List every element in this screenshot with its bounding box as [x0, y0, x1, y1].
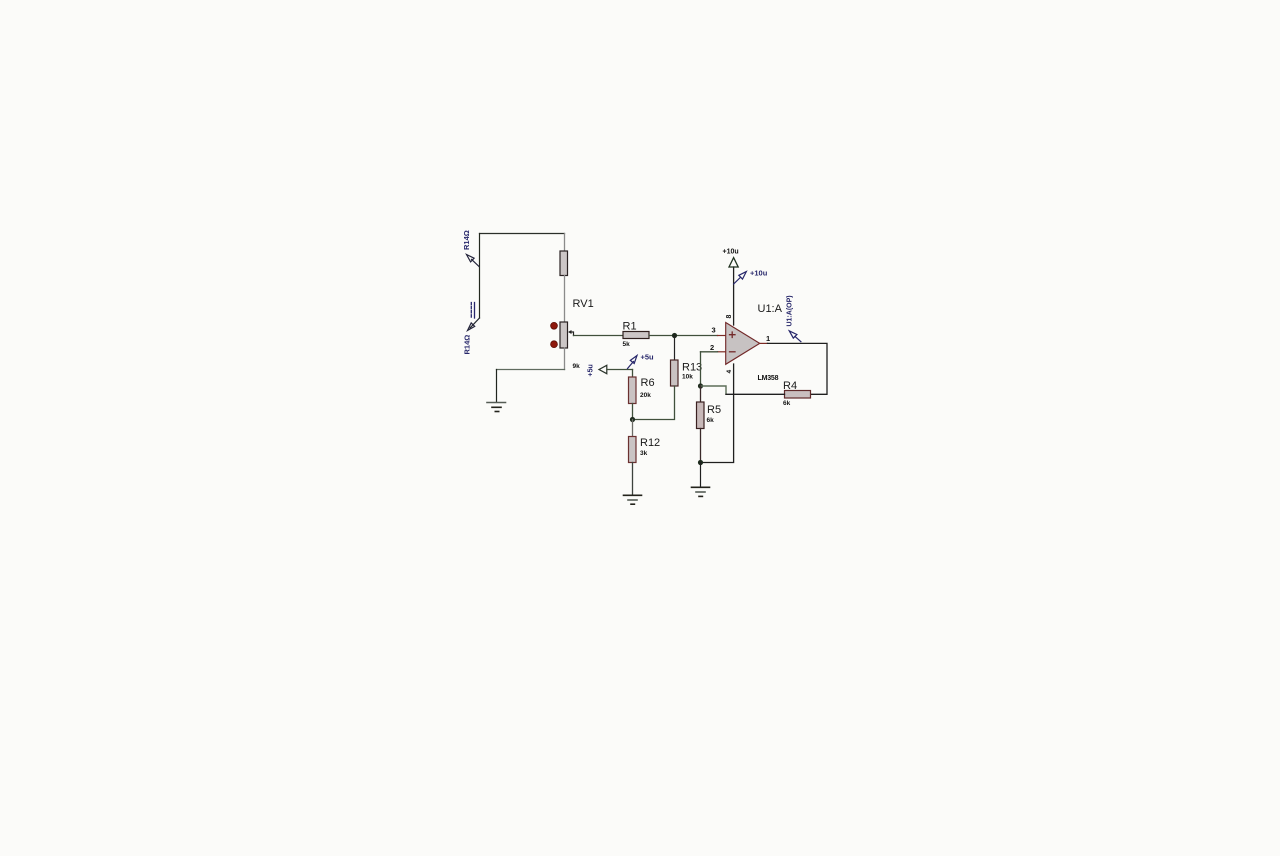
svg-text:6k: 6k [707, 417, 715, 424]
power terminal +10u (up triangle) [723, 249, 739, 268]
power terminal +5u (diagonal arrow) [628, 352, 655, 368]
svg-text:3: 3 [712, 326, 716, 335]
svg-text:U1:A: U1:A [758, 303, 783, 315]
probe R14 top (arrow pointing NW at wire) [462, 230, 479, 266]
wire drop to ground G1 [496, 370, 498, 403]
power terminal +10u (diagonal arrow) [734, 268, 768, 284]
svg-text:+5u: +5u [641, 352, 655, 361]
svg-text:+10u: +10u [750, 268, 768, 277]
wire R4 to feedback jog [726, 393, 785, 395]
potentiometer RV1 [551, 234, 594, 370]
resistor R12 [629, 420, 661, 496]
svg-text:20k: 20k [640, 392, 651, 399]
svg-text:R4: R4 [783, 380, 797, 392]
svg-text:+5u: +5u [588, 364, 595, 376]
svg-text:10k: 10k [682, 373, 693, 380]
svg-text:3k: 3k [640, 450, 648, 457]
wire pin8 vertical to power [733, 267, 735, 325]
wire left vertical drop [479, 234, 481, 319]
wire R1 to junction A [649, 335, 675, 337]
wire output loop right and down [768, 343, 828, 394]
svg-text:R5: R5 [707, 404, 721, 416]
svg-text:8: 8 [726, 315, 733, 319]
ground G3 [692, 487, 710, 496]
wire wiper to R1 (net with junction) [574, 335, 624, 337]
svg-text:2: 2 [710, 343, 714, 352]
svg-text:R14Ω: R14Ω [462, 230, 471, 250]
svg-text:R6: R6 [641, 377, 655, 389]
wire op-amp pin2 stub [701, 351, 726, 353]
svg-text:R1: R1 [623, 320, 637, 332]
svg-text:5k: 5k [623, 341, 631, 348]
wire bottom-left horizontal [497, 369, 565, 371]
wire R13 bottom down and to node B [633, 386, 675, 420]
svg-text:LM358: LM358 [758, 375, 779, 382]
node junction C [698, 383, 703, 388]
wire junction A to op-amp pin3 [675, 335, 726, 337]
svg-text:U1:A(OP): U1:A(OP) [787, 295, 794, 326]
svg-text:1: 1 [766, 334, 770, 343]
wire diagonal stub to probe R14 bottom [470, 318, 480, 328]
op-amp U1:A [710, 303, 783, 382]
wire output pin1 stub [760, 342, 768, 344]
svg-text:9k: 9k [573, 363, 581, 370]
wire node D to ground G3 [700, 463, 702, 488]
probe R14 bottom (arrow pointing SW with DC mark) [463, 303, 475, 355]
wire pin2 net down to node C [700, 352, 702, 386]
svg-text:R14Ω: R14Ω [463, 335, 472, 355]
wire top horizontal from left corner to RV1 top [480, 233, 565, 235]
node junction A [672, 333, 677, 338]
svg-text:R13: R13 [682, 362, 702, 374]
wire junction A down to R13 [674, 336, 676, 361]
resistor R4 [783, 380, 811, 407]
ground G1 [487, 403, 506, 412]
terminal input left (hollow triangle) [588, 364, 607, 376]
svg-text:4: 4 [726, 370, 733, 374]
wire pin4 vertical down [701, 364, 734, 463]
resistor R6 [629, 370, 655, 420]
svg-text:RV1: RV1 [573, 298, 594, 310]
wire terminal to R6 top corner [607, 369, 633, 371]
ground G2 [624, 495, 642, 504]
svg-text:+10u: +10u [723, 249, 739, 256]
resistor R1 [623, 320, 650, 348]
resistor R5 [697, 386, 722, 463]
node junction B [630, 417, 635, 422]
svg-text:R12: R12 [640, 437, 660, 449]
probe U1:A(OP) on output [787, 295, 801, 341]
node junction D [698, 460, 703, 465]
resistor R13 [671, 360, 703, 386]
wire node C to feedback jog [701, 386, 727, 394]
svg-text:6k: 6k [783, 400, 791, 407]
